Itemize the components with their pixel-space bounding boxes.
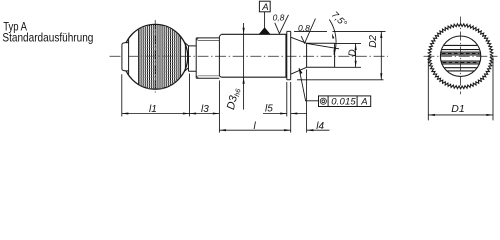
svg-text:D: D — [348, 49, 359, 56]
concentricity frame leader — [299, 68, 319, 101]
pin cone — [291, 37, 307, 74]
knurl boundary meridians — [139, 30, 181, 85]
flange top extension — [294, 30, 386, 32]
arrowheads + datum triangle — [122, 27, 493, 131]
end cap of knob — [122, 43, 129, 71]
svg-text:l1: l1 — [149, 104, 157, 115]
dimension lines row 1: l1, l3, l5 — [122, 113, 220, 115]
surface finish symbol 0,8 on pin — [301, 19, 315, 44]
dimension lines row 2: l, l4 — [219, 129, 329, 131]
svg-text:0,8: 0,8 — [273, 13, 285, 23]
dimension line D2 — [380, 31, 382, 79]
datum box A — [259, 1, 270, 12]
section B precision shank — [221, 34, 286, 77]
dimension line D — [355, 43, 357, 67]
svg-text:A: A — [360, 97, 367, 108]
knurl texture horizontal lines — [139, 26, 181, 88]
surface finish symbol 0,8 on shank — [275, 15, 289, 34]
svg-text:Standardausführung: Standardausführung — [2, 31, 93, 45]
neck cone — [184, 31, 335, 79]
svg-text:0.015: 0.015 — [331, 97, 356, 108]
extension verticals bottom — [121, 74, 123, 116]
pin cylinder — [307, 43, 335, 67]
flange — [286, 31, 291, 79]
svg-text:D2: D2 — [368, 35, 379, 48]
D1 extensions + dimension — [428, 58, 493, 121]
pin bottom edge extension — [335, 66, 361, 68]
svg-text:l5: l5 — [265, 104, 273, 115]
7.5deg construction line — [307, 43, 339, 48]
groove collar — [188, 46, 190, 71]
right view: knurled circumference — [428, 24, 493, 89]
extension + dimension lines — [122, 12, 493, 133]
step + chamfer to section B — [218, 36, 220, 76]
svg-text:l4: l4 — [316, 121, 324, 132]
datum leader — [264, 12, 266, 29]
flange bottom extension — [297, 79, 384, 81]
dimension line D3 — [243, 23, 245, 110]
svg-text:l3: l3 — [201, 104, 209, 115]
knurl texture vertical zigzag lines — [139, 25, 179, 89]
pin top edge extension — [335, 42, 361, 44]
angle dimension arc — [329, 20, 336, 55]
dimension labels — [149, 10, 465, 132]
section A (thread) — [195, 38, 197, 78]
vertical centreline of ball — [154, 20, 156, 94]
horizontal centre axis of side view — [110, 20, 389, 94]
svg-text:A: A — [261, 2, 268, 13]
ball knob outline — [122, 24, 188, 89]
concentricity tolerance frame — [319, 96, 371, 108]
svg-text:0,8: 0,8 — [298, 23, 310, 33]
svg-text:D1: D1 — [451, 103, 464, 115]
